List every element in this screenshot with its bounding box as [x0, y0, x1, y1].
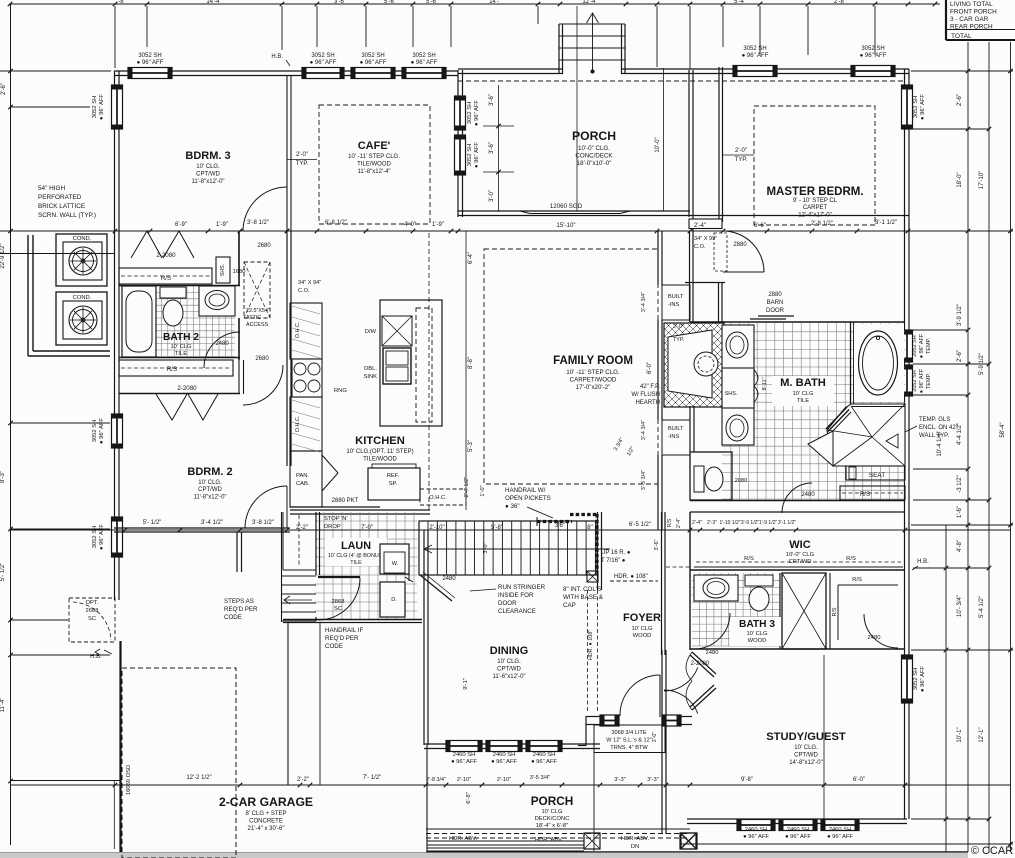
- svg-text:● 96" AFF: ● 96" AFF: [920, 94, 926, 120]
- svg-text:3'-8 1/2": 3'-8 1/2": [247, 220, 269, 226]
- mbath tub: [851, 322, 905, 404]
- svg-text:2'-3": 2'-3": [707, 520, 717, 526]
- mbath shower door leaf: [808, 431, 833, 466]
- svg-text:3052 SH: 3052 SH: [138, 53, 161, 59]
- svg-text:10' CLG: 10' CLG: [631, 626, 653, 632]
- label BATH 2: [163, 332, 199, 357]
- stairs door 2480: [420, 572, 456, 601]
- svg-text:10' CLG: 10' CLG: [792, 391, 814, 397]
- dining dims: [463, 678, 472, 804]
- window 3052 SH left bdrm3: [92, 85, 123, 129]
- kitchen/family dims mid: [464, 231, 486, 510]
- master closet side wall: [719, 283, 723, 322]
- svg-text:BDRM. 2: BDRM. 2: [187, 466, 232, 478]
- dining window labels: [451, 752, 557, 765]
- svg-text:CPT/WD: CPT/WD: [196, 172, 220, 178]
- svg-text:-INS: -INS: [668, 302, 679, 308]
- svg-text:CAP: CAP: [563, 602, 576, 609]
- svg-text:34" X 94": 34" X 94": [298, 280, 321, 286]
- svg-text:R/S: R/S: [744, 556, 754, 562]
- svg-text:ACCESS: ACCESS: [246, 322, 269, 328]
- bath3 door 2480: [694, 613, 730, 656]
- svg-text:10'- 3/4": 10'- 3/4": [957, 595, 963, 617]
- label handrail pickets: [505, 487, 553, 518]
- svg-text:● 96" AFF: ● 96" AFF: [451, 759, 477, 765]
- svg-text:● 96" AFF: ● 96" AFF: [920, 666, 926, 692]
- built-ins lower: [662, 420, 690, 455]
- svg-text:O.H.C.: O.H.C.: [295, 322, 301, 338]
- svg-text:10' -11' STEP CLG.: 10' -11' STEP CLG.: [566, 369, 620, 376]
- wic bottom wall: [690, 569, 905, 571]
- svg-text:4'-8": 4'-8": [957, 540, 963, 552]
- svg-text:DOOR: DOOR: [766, 308, 785, 314]
- label M. BATH: [772, 376, 834, 406]
- svg-text:12'-4": 12'-4": [582, 0, 597, 5]
- svg-text:UP 16 R. ●: UP 16 R. ●: [601, 550, 631, 556]
- svg-text:SHS.: SHS.: [220, 264, 226, 276]
- svg-text:CARPET: CARPET: [803, 205, 828, 211]
- svg-text:TYP.: TYP.: [296, 161, 309, 167]
- svg-text:9'-8": 9'-8": [741, 777, 753, 783]
- hb garage: [90, 649, 112, 660]
- svg-text:3'-9 1/2": 3'-9 1/2": [741, 520, 760, 526]
- svg-text:● 96" AFF: ● 96" AFF: [137, 60, 164, 66]
- svg-text:9'-1": 9'-1": [463, 678, 469, 690]
- svg-text:LIVING TOTAL: LIVING TOTAL: [950, 1, 993, 8]
- svg-text:2460 SH: 2460 SH: [533, 752, 556, 758]
- svg-text:DN: DN: [631, 844, 639, 850]
- laundry tile grid: [315, 512, 417, 620]
- svg-text:12'-2 1/2": 12'-2 1/2": [186, 775, 211, 781]
- svg-text:2052 SH: 2052 SH: [912, 335, 918, 356]
- master closet barn door: [750, 292, 794, 319]
- study windows bottom: [737, 820, 859, 841]
- svg-text:-3 1/2": -3 1/2": [957, 475, 963, 492]
- kitchen pocket door 2880 PKT: [290, 498, 380, 507]
- svg-text:BRICK LATTICE: BRICK LATTICE: [38, 203, 85, 210]
- mbath rs closet: [840, 486, 905, 500]
- svg-text:© CCAR: © CCAR: [971, 845, 1013, 857]
- master dashed ceiling: [754, 106, 875, 225]
- svg-text:● 36": ● 36": [505, 503, 520, 510]
- label 42 FP: [631, 384, 660, 406]
- svg-text:4'-0": 4'-0": [404, 222, 416, 228]
- svg-text:FRONT PORCH: FRONT PORCH: [950, 9, 997, 16]
- svg-text:3'-3": 3'-3": [614, 777, 626, 783]
- svg-text:● 96" AFF: ● 96" AFF: [474, 100, 480, 126]
- svg-text:1'-9": 1'-9": [216, 222, 228, 228]
- svg-text:16060 OSD: 16060 OSD: [126, 765, 132, 795]
- stop n drop: [296, 516, 373, 531]
- label PORCH bottom: [531, 794, 574, 829]
- svg-text:HANDRAIL W/: HANDRAIL W/: [505, 487, 546, 494]
- hb right: [912, 559, 929, 570]
- window 2052 SH right mbath pair: [902, 330, 933, 396]
- svg-text:8" INT. COL'S: 8" INT. COL'S: [563, 586, 601, 593]
- svg-text:BATH 2: BATH 2: [163, 332, 199, 343]
- H.B. hose bib top: [271, 54, 290, 66]
- bath2 toilet: [160, 287, 186, 326]
- svg-text:3052 SH: 3052 SH: [92, 526, 98, 549]
- svg-text:1'-9 1/2": 1'-9 1/2": [759, 520, 778, 526]
- svg-text:10' CLG.: 10' CLG.: [198, 480, 222, 486]
- svg-text:● 96" AFF: ● 96" AFF: [743, 834, 769, 840]
- svg-text:3068 3/4 LITE: 3068 3/4 LITE: [611, 730, 646, 736]
- svg-text:3'-1 1/2": 3'-1 1/2": [778, 520, 797, 526]
- mbath shower glass: [826, 407, 851, 434]
- svg-text:CODE: CODE: [224, 614, 242, 621]
- svg-text:1'-9": 1'-9": [432, 222, 444, 228]
- svg-text:STUDY/GUEST: STUDY/GUEST: [766, 731, 846, 743]
- svg-text:INSIDE FOR: INSIDE FOR: [498, 592, 534, 599]
- label FAMILY ROOM: [553, 355, 633, 391]
- svg-text:● 96" AFF: ● 96" AFF: [531, 759, 557, 765]
- svg-text:WOOD: WOOD: [633, 633, 652, 639]
- svg-text:11'-8"x12'-0": 11'-8"x12'-0": [193, 495, 226, 501]
- foyer coat closet: [666, 518, 690, 567]
- svg-text:TILE/WOOD: TILE/WOOD: [357, 162, 391, 168]
- laundry walls: [283, 512, 422, 623]
- svg-text:8'-8": 8'-8": [468, 357, 474, 369]
- svg-text:22.5"X54": 22.5"X54": [246, 308, 270, 314]
- svg-text:W.: W.: [392, 561, 399, 567]
- svg-text:17'-0"x20'-2": 17'-0"x20'-2": [576, 384, 611, 391]
- label KITCHEN: [346, 435, 413, 463]
- svg-text:8'-11": 8'-11": [762, 377, 768, 390]
- label up 16R: [601, 550, 631, 564]
- svg-text:3'-0": 3'-0": [483, 542, 489, 553]
- svg-text:SC: SC: [334, 606, 342, 612]
- dim 15'-10 porch bottom: [10, 222, 1010, 233]
- svg-text:2052 SH: 2052 SH: [912, 370, 918, 391]
- svg-text:6'-9": 6'-9": [175, 222, 187, 228]
- bath3 vanity: [694, 575, 738, 601]
- porch bottom steps: [426, 841, 968, 852]
- kitchen island: [380, 233, 442, 510]
- svg-text:12'-4"x17'-0": 12'-4"x17'-0": [798, 213, 832, 219]
- svg-text:2'-8 3/4": 2'-8 3/4": [426, 777, 446, 783]
- svg-text:-8": -8": [118, 0, 125, 5]
- top exterior wall: [114, 69, 909, 76]
- svg-text:3'-9 1/2": 3'-9 1/2": [957, 304, 963, 326]
- svg-text:10' CLG (4' @ BONUS): 10' CLG (4' @ BONUS): [328, 553, 385, 559]
- svg-text:10'-0" CLG: 10'-0" CLG: [786, 552, 815, 558]
- label FOYER: [623, 612, 661, 639]
- svg-text:● 96" AFF: ● 96" AFF: [99, 94, 105, 120]
- svg-text:2880: 2880: [733, 242, 747, 248]
- opt door 2668 SC: [69, 598, 115, 642]
- svg-text:2'-4": 2'-4": [692, 520, 702, 526]
- svg-text:BUILT: BUILT: [668, 294, 684, 300]
- window 3052 SH right master: [902, 85, 927, 129]
- paper bottom edge band: [0, 853, 968, 858]
- svg-text:● 96" AFF: ● 96" AFF: [411, 60, 438, 66]
- svg-text:2'-6": 2'-6": [1, 83, 7, 95]
- svg-text:2460 SH: 2460 SH: [829, 827, 852, 833]
- svg-text:REQ'D PER: REQ'D PER: [325, 635, 359, 642]
- kitchen ref sp: [368, 464, 420, 500]
- mbath tile grid: [722, 323, 905, 500]
- stairs dims: [429, 522, 660, 554]
- wic top dim row: [10, 520, 1010, 532]
- dining bottom wall: [424, 744, 600, 749]
- svg-text:2'-7 1/2": 2'-7 1/2": [464, 477, 470, 497]
- shower seat: [846, 466, 905, 480]
- svg-text:18'-0": 18'-0": [957, 172, 963, 187]
- bdrm2 bottom wall: [114, 528, 290, 532]
- window 2460 dining 1: [446, 741, 482, 752]
- fireplace 42in: [664, 323, 724, 407]
- bath2 vanity sink: [199, 286, 235, 316]
- svg-text:14'-8"x12'-0": 14'-8"x12'-0": [789, 760, 823, 766]
- label CAFE': [348, 140, 400, 175]
- label PORCH top: [572, 129, 616, 167]
- svg-text:R/S: R/S: [860, 492, 870, 498]
- svg-text:H.B.: H.B.: [271, 54, 283, 60]
- window 3052 SH porch left lower: [455, 135, 481, 175]
- svg-text:17'-10": 17'-10": [979, 171, 985, 190]
- svg-text:5'-4 1/2": 5'-4 1/2": [979, 596, 985, 618]
- porch rear dashed header: [458, 80, 906, 82]
- svg-text:2'-4": 2'-4": [694, 223, 706, 229]
- svg-text:2480: 2480: [442, 576, 456, 582]
- svg-text:2'-10": 2'-10": [457, 777, 471, 783]
- svg-text:CAFE': CAFE': [358, 140, 391, 152]
- svg-text:3'-3": 3'-3": [647, 777, 659, 783]
- svg-text:PERFORATED: PERFORATED: [38, 194, 82, 201]
- svg-text:10'-0": 10'-0": [655, 137, 661, 152]
- porch entry steps: [559, 6, 625, 211]
- label brick lattice wall: [38, 185, 96, 219]
- svg-text:2668: 2668: [86, 608, 99, 614]
- svg-text:SC: SC: [88, 616, 96, 622]
- svg-text:C.O.: C.O.: [694, 244, 706, 250]
- svg-text:2880: 2880: [768, 292, 782, 298]
- kitchen left counter: [290, 303, 322, 507]
- label WIC: [786, 539, 815, 565]
- porch bottom headers: [426, 829, 690, 850]
- built-ins upper: [662, 285, 690, 320]
- svg-text:1'-0": 1'-0": [480, 485, 486, 496]
- bath2 door 2480: [204, 332, 283, 405]
- svg-text:3052 SH: 3052 SH: [467, 144, 473, 167]
- family dims right: [613, 292, 653, 490]
- window 2460 dining 3: [526, 741, 562, 752]
- svg-text:LAUN: LAUN: [341, 540, 371, 552]
- study closet: [830, 573, 898, 649]
- dryer: [380, 545, 413, 617]
- svg-text:TEMP. GLS: TEMP. GLS: [919, 417, 950, 423]
- porch right boundary: [689, 70, 693, 231]
- washer: [380, 544, 409, 574]
- svg-text:12'-1": 12'-1": [979, 727, 985, 742]
- window 3052 SH porch left upper: [455, 96, 481, 130]
- svg-text:2480: 2480: [868, 635, 881, 641]
- svg-text:15'-10": 15'-10": [556, 222, 575, 229]
- svg-text:4'-4 1/2": 4'-4 1/2": [957, 423, 963, 445]
- svg-text:14'-4": 14'-4": [206, 0, 221, 5]
- svg-text:21'-4" x 30'-6": 21'-4" x 30'-6": [248, 826, 285, 832]
- svg-text:● 96" AFF: ● 96" AFF: [827, 834, 853, 840]
- svg-text:FAMILY ROOM: FAMILY ROOM: [553, 355, 633, 367]
- svg-text:5'- 1/2": 5'- 1/2": [143, 520, 162, 526]
- svg-text:5'-4": 5'-4": [734, 0, 746, 5]
- svg-text:6'-4": 6'-4": [468, 252, 474, 264]
- kitchen pantry PAN CAB: [296, 455, 338, 491]
- svg-text:3'-6": 3'-6": [489, 142, 495, 154]
- window 3052 SH left bdrm2 lower: [92, 517, 123, 557]
- dim 2'-0 typ hall: [287, 152, 317, 167]
- header 108: [610, 574, 658, 581]
- label BDRM. 2: [187, 466, 232, 501]
- svg-text:WALL TYP.: WALL TYP.: [919, 433, 949, 439]
- svg-text:6'-0": 6'-0": [647, 362, 653, 374]
- hall door 2680: [243, 187, 287, 249]
- svg-text:14'-: 14'-: [489, 0, 499, 5]
- svg-text:3'-4 3/4": 3'-4 3/4": [641, 292, 647, 312]
- window 3052 SH cafe 2: [351, 53, 395, 79]
- svg-text:T 7/16" ●: T 7/16" ●: [601, 558, 626, 564]
- window 3052 SH bdrm3: [128, 53, 172, 79]
- svg-text:5'-9 1/2": 5'-9 1/2": [979, 353, 985, 375]
- stairs main: [419, 521, 610, 575]
- svg-text:WOOD: WOOD: [748, 638, 767, 644]
- svg-text:3052 SH: 3052 SH: [92, 96, 98, 119]
- svg-text:3'-6": 3'-6": [489, 94, 495, 106]
- bath2 tub: [122, 286, 156, 357]
- svg-text:● 96" AFF: ● 96" AFF: [474, 142, 480, 168]
- svg-text:TRNS. 4" BTW: TRNS. 4" BTW: [610, 745, 648, 751]
- svg-text:10' CLG.: 10' CLG.: [497, 659, 521, 665]
- svg-text:11'-8"x12'-4": 11'-8"x12'-4": [357, 169, 390, 175]
- bath2 walls: [119, 231, 240, 360]
- svg-text:11'-8"x12'-0": 11'-8"x12'-0": [191, 179, 224, 185]
- front door 3068 with sidelights: [578, 675, 692, 753]
- svg-text:3052 SH: 3052 SH: [743, 46, 766, 52]
- rear porch column right: [681, 833, 697, 849]
- svg-text:● 96" AFF: ● 96" AFF: [99, 418, 105, 444]
- svg-text:3'-6": 3'-6": [654, 539, 660, 550]
- svg-text:● 96" AFF: ● 96" AFF: [860, 53, 887, 59]
- svg-text:PORCH: PORCH: [572, 129, 616, 143]
- svg-text:9' - 10' STEP CL: 9' - 10' STEP CL: [793, 198, 838, 204]
- svg-text:6'-0": 6'-0": [853, 777, 865, 783]
- svg-text:3'-0": 3'-0": [489, 190, 495, 202]
- bdrm2 door arc: [245, 486, 287, 528]
- svg-text:HDR. ● 108": HDR. ● 108": [588, 630, 594, 660]
- svg-text:2680: 2680: [257, 243, 271, 249]
- label DINING: [490, 645, 529, 680]
- handrail if reqd note: [325, 627, 363, 650]
- svg-text:2680: 2680: [255, 356, 269, 362]
- mbath top wall: [690, 321, 905, 323]
- svg-text:M. BATH: M. BATH: [780, 377, 826, 389]
- svg-text:R/S: R/S: [667, 518, 673, 527]
- svg-text:PORCH: PORCH: [531, 794, 574, 808]
- svg-text:DOOR: DOOR: [498, 600, 517, 607]
- svg-text:2'-6": 2'-6": [957, 94, 963, 106]
- svg-text:R/S: R/S: [167, 366, 177, 373]
- svg-text:D.: D.: [391, 597, 397, 603]
- svg-text:10' CLG.: 10' CLG.: [794, 745, 818, 751]
- svg-text:HDR. ABV.: HDR. ABV.: [621, 836, 650, 842]
- label BATH 3: [730, 617, 786, 646]
- svg-text:1'-10 1/2": 1'-10 1/2": [719, 520, 740, 526]
- svg-text:6'-6": 6'-6": [754, 223, 766, 229]
- svg-text:10' CLG: 10' CLG: [746, 631, 768, 637]
- svg-text:TEMP.: TEMP.: [926, 337, 932, 354]
- svg-text:2'-0": 2'-0": [296, 152, 308, 158]
- svg-text:2'-2": 2'-2": [297, 777, 309, 783]
- svg-text:CPT/WD: CPT/WD: [497, 667, 521, 673]
- svg-text:REQ'D PER: REQ'D PER: [224, 606, 258, 613]
- laundry top wall: [290, 510, 430, 514]
- svg-text:2'-0": 2'-0": [652, 732, 658, 742]
- stop n drop cubby: [283, 512, 316, 570]
- svg-text:SCRN. WALL (TYP.): SCRN. WALL (TYP.): [38, 212, 96, 219]
- svg-text:5'- 1/2": 5'- 1/2": [0, 563, 6, 582]
- svg-text:DROP: DROP: [324, 524, 341, 530]
- bdrm3 closet bifold doors 2-2080: [131, 231, 194, 259]
- svg-text:3 - CAR GAR: 3 - CAR GAR: [950, 16, 989, 23]
- wic shelves: [694, 556, 903, 567]
- svg-text:11'-6"x12'-0": 11'-6"x12'-0": [492, 674, 525, 680]
- porch sliding door 12060 SGD: [458, 203, 909, 216]
- svg-text:CLEARANCE: CLEARANCE: [498, 608, 536, 615]
- bath2 tile grid: [155, 286, 235, 357]
- svg-text:54" HIGH: 54" HIGH: [38, 185, 66, 192]
- label 2'-4 C.O.: [694, 223, 747, 250]
- svg-text:2'-10": 2'-10": [497, 777, 511, 783]
- label STUDY/GUEST: [766, 731, 846, 766]
- study french doors 2-2080: [686, 652, 716, 710]
- svg-text:SEAT: SEAT: [869, 472, 885, 479]
- kitchen hall wall: [287, 231, 321, 466]
- svg-text:STEPS AS: STEPS AS: [224, 598, 254, 605]
- porch columns: [584, 833, 696, 849]
- top dimension line: [8, 0, 940, 69]
- svg-text:58'-4": 58'-4": [1000, 422, 1006, 437]
- svg-text:H.B.: H.B.: [90, 654, 102, 660]
- svg-text:RUN STRINGER: RUN STRINGER: [498, 584, 546, 591]
- svg-text:CODE: CODE: [325, 643, 343, 650]
- kitchen double sink: [363, 348, 411, 384]
- svg-text:KITCHEN: KITCHEN: [355, 435, 405, 447]
- svg-text:2'-0": 2'-0": [673, 324, 684, 330]
- kitchen DW: [365, 316, 412, 346]
- porch left wall: [458, 70, 463, 217]
- svg-text:2460 SH: 2460 SH: [493, 752, 516, 758]
- area table: [946, 0, 1015, 40]
- label 2-CAR GARAGE: [219, 795, 313, 832]
- svg-text:CONCRETE: CONCRETE: [249, 819, 283, 825]
- svg-text:10' CLG: 10' CLG: [170, 344, 192, 350]
- svg-text:TYP.: TYP.: [735, 157, 748, 163]
- svg-text:BARN: BARN: [767, 300, 784, 306]
- svg-text:3'-4 1/2": 3'-4 1/2": [201, 520, 223, 526]
- run stringer note: [470, 584, 546, 615]
- label LAUN: [325, 538, 387, 566]
- family east wall segments: [658, 231, 662, 530]
- svg-text:10' CLG.(OPT. 11' STEP): 10' CLG.(OPT. 11' STEP): [346, 449, 413, 455]
- svg-text:3052 SH: 3052 SH: [412, 53, 435, 59]
- svg-text:3'-8 1/2": 3'-8 1/2": [252, 520, 274, 526]
- svg-text:● 96" AFF: ● 96" AFF: [742, 53, 769, 59]
- svg-text:TILE/WOOD: TILE/WOOD: [363, 457, 397, 463]
- svg-text:R/S: R/S: [846, 556, 856, 562]
- svg-text:CPT/WD: CPT/WD: [794, 753, 818, 759]
- svg-text:O.H.C.: O.H.C.: [295, 416, 301, 432]
